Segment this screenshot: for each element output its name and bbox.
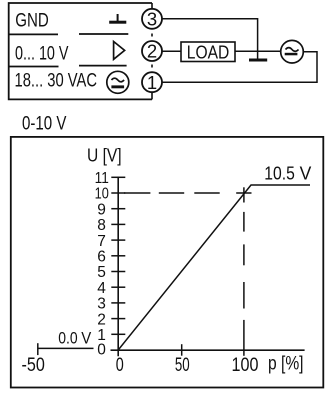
svg-text:0: 0 xyxy=(97,342,106,359)
svg-text:8: 8 xyxy=(97,217,106,234)
svg-text:1: 1 xyxy=(97,327,106,344)
svg-text:3: 3 xyxy=(147,9,157,30)
svg-text:100: 100 xyxy=(232,355,259,376)
svg-text:0... 10 V: 0... 10 V xyxy=(15,44,69,65)
svg-text:2: 2 xyxy=(147,41,157,62)
svg-text:p [%]: p [%] xyxy=(268,354,304,375)
svg-text:1: 1 xyxy=(147,72,157,93)
svg-text:6: 6 xyxy=(97,248,106,265)
svg-text:7: 7 xyxy=(97,233,106,250)
svg-text:0.0: 0.0 xyxy=(58,328,77,347)
svg-text:LOAD: LOAD xyxy=(187,42,230,63)
svg-text:5: 5 xyxy=(97,264,106,281)
svg-text:0-10 V: 0-10 V xyxy=(22,114,67,135)
svg-text:50: 50 xyxy=(175,355,190,376)
svg-text:U [V]: U [V] xyxy=(87,145,122,166)
svg-text:2: 2 xyxy=(97,311,106,328)
svg-text:4: 4 xyxy=(97,280,106,297)
svg-text:9: 9 xyxy=(97,201,106,218)
svg-text:10.5: 10.5 xyxy=(264,163,295,184)
svg-text:0: 0 xyxy=(116,355,124,376)
svg-text:V: V xyxy=(81,328,92,347)
svg-text:V: V xyxy=(300,163,312,184)
svg-text:10: 10 xyxy=(95,186,110,203)
svg-text:3: 3 xyxy=(97,296,106,313)
svg-text:11: 11 xyxy=(95,170,109,187)
svg-text:-50: -50 xyxy=(22,355,45,376)
svg-text:18... 30 VAC: 18... 30 VAC xyxy=(15,71,98,92)
svg-text:GND: GND xyxy=(15,11,49,32)
